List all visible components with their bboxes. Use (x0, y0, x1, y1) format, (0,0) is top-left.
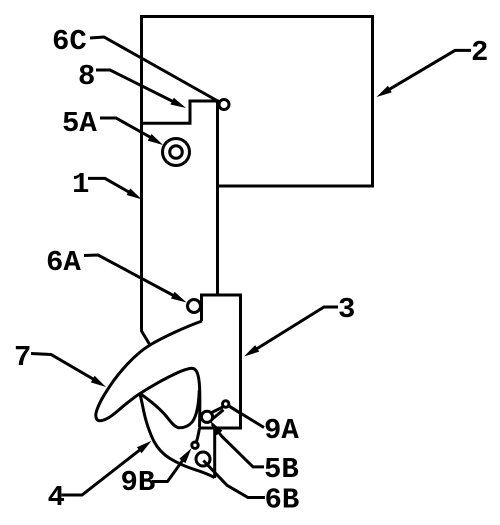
svg-text:4: 4 (48, 481, 65, 514)
bolt 6A circle (188, 300, 201, 313)
svg-text:8: 8 (78, 60, 95, 93)
svg-text:3: 3 (338, 293, 355, 326)
tooth 4 right edge (213, 428, 216, 478)
tooth inner drop edge (140, 390, 199, 428)
claw 7 upper edge (96, 321, 202, 421)
bolt 6B circle (196, 452, 210, 466)
tooth 4 upper-right edge to pin 9B (195, 428, 199, 445)
step 8 notch (142, 101, 220, 123)
leader 6C (90, 37, 220, 102)
arrowhead 3 (244, 345, 259, 356)
svg-text:6C: 6C (52, 25, 87, 58)
pin 9A small circle (223, 401, 229, 407)
leader 5B (212, 424, 264, 467)
svg-text:1: 1 (72, 168, 89, 201)
link 9A small circle edge to plate (228, 406, 240, 413)
svg-text:9A: 9A (264, 414, 299, 447)
leader 6A (84, 255, 180, 299)
bolt 5A inner circle (170, 146, 183, 159)
link 9A upper edge (212, 407, 223, 413)
leader 7 (31, 354, 100, 384)
svg-text:6A: 6A (46, 246, 81, 279)
svg-text:6B: 6B (265, 484, 300, 517)
leader 1 (88, 178, 134, 195)
leader 9B (152, 459, 184, 482)
arrowhead 8 (170, 98, 186, 108)
pin 6C circle (219, 100, 229, 110)
arrowhead 4 (137, 441, 152, 454)
tooth 4 left edge (140, 394, 215, 478)
bolt 5A outer circle (163, 139, 190, 166)
leader 8 (96, 70, 180, 105)
svg-text:9B: 9B (121, 466, 156, 499)
arrowhead 5A (148, 134, 163, 145)
svg-text:5A: 5A (62, 107, 97, 140)
svg-text:2: 2 (471, 36, 488, 69)
arrowhead 6A (171, 292, 187, 303)
arrowhead 5B (210, 421, 222, 436)
arrowhead 7 (91, 376, 106, 387)
leader 3 (250, 307, 338, 353)
link 9A lower edge (211, 410, 224, 421)
leader 4 (62, 449, 142, 495)
bolt 5B circle (on link) (201, 411, 212, 422)
svg-text:7: 7 (14, 341, 31, 374)
shank 1 right edge (216, 100, 219, 296)
leader 2 (382, 50, 471, 93)
leader 6B (203, 461, 265, 498)
plate 3 outline (199, 295, 241, 428)
arrowhead 2 (377, 86, 392, 97)
svg-text:5B: 5B (264, 453, 299, 486)
bracket 2 rectangle (142, 17, 373, 187)
arrowhead 9B (179, 448, 191, 463)
leader 9A (228, 406, 264, 428)
arrowhead 1 (127, 188, 142, 199)
shank 1 left edge (142, 15, 151, 345)
claw 7 inner edge (100, 368, 200, 427)
pin 9B tiny circle (192, 442, 198, 448)
leader 5A (100, 118, 157, 141)
